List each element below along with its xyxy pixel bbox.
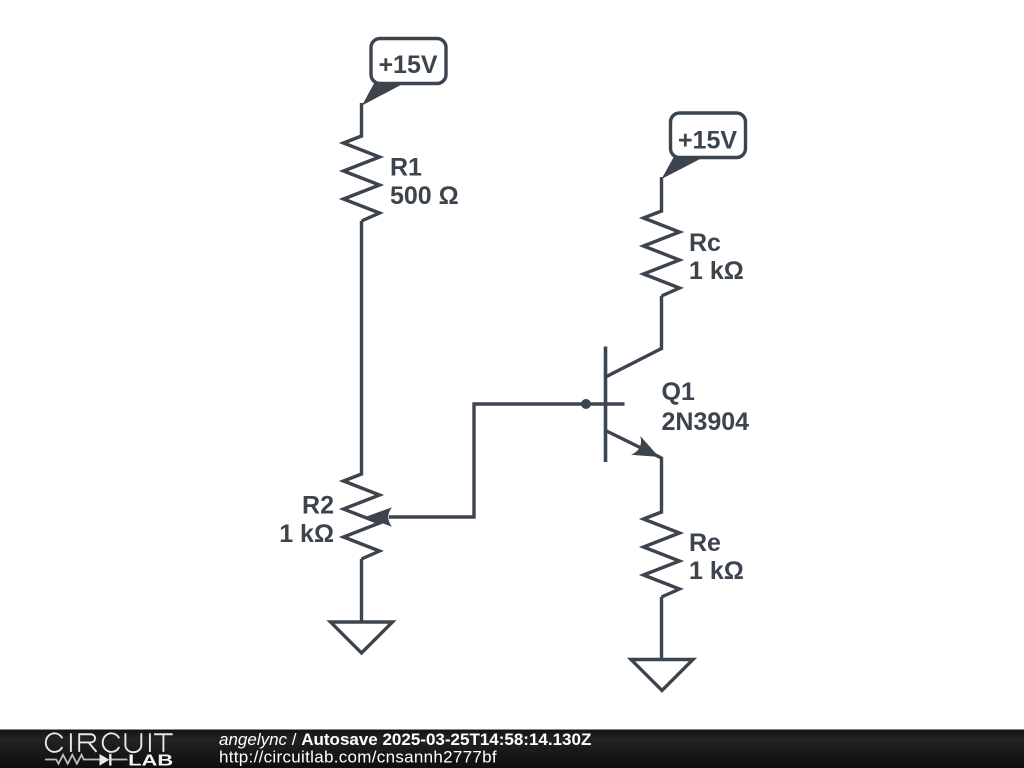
svg-text:1 kΩ: 1 kΩ [279,520,334,548]
svg-text:LAB: LAB [128,752,173,768]
svg-text:http://circuitlab.com/cnsannh2: http://circuitlab.com/cnsannh2777bf [219,748,497,767]
label Re 1 kΩ [689,529,744,585]
footer bar [0,730,1024,768]
power flag +15V (V2) [662,113,746,179]
svg-text:Rc: Rc [689,229,721,257]
label R1 500 Ω [390,154,459,211]
logo resistor-diode line [45,754,127,766]
wire: Re to ground [660,597,663,660]
transistor Q1 [586,347,662,463]
ground (left) [331,622,393,653]
svg-text:R2: R2 [302,492,334,520]
svg-text:+15V: +15V [678,127,737,155]
ground (right) [631,660,693,691]
wire: V2 to Rc top [660,177,663,213]
wire: V1 to R1 top [360,103,363,138]
power flag +15V (V1) [362,39,446,106]
wire: Q1 emitter to Re [660,457,663,514]
resistor Re [644,512,680,597]
svg-text:Re: Re [689,529,721,557]
svg-text:1 kΩ: 1 kΩ [689,257,744,285]
label Rc 1 kΩ [689,229,744,285]
resistor R1 [344,136,380,221]
svg-text:2N3904: 2N3904 [662,408,750,436]
label R2 1 kΩ [279,492,334,549]
logo CIRCUIT wordmark [46,733,173,752]
junction dot (base node) [581,399,591,409]
label Q1 2N3904 [662,378,750,436]
wire: base net from R2 wiper to Q1 base [389,404,586,517]
svg-text:angelync / Autosave 2025-03-25: angelync / Autosave 2025-03-25T14:58:14.… [219,730,591,749]
wire: Rc to Q1 collector [660,296,663,350]
svg-text:1 kΩ: 1 kΩ [689,557,744,585]
wire: R2 bottom to ground [360,559,363,622]
wire: R1 to R2 [360,221,363,476]
svg-text:+15V: +15V [378,51,437,79]
svg-text:500 Ω: 500 Ω [390,182,459,210]
resistor Rc [644,211,680,296]
svg-text:R1: R1 [390,154,422,182]
potentiometer R2 [344,474,393,559]
svg-text:Q1: Q1 [662,378,695,406]
